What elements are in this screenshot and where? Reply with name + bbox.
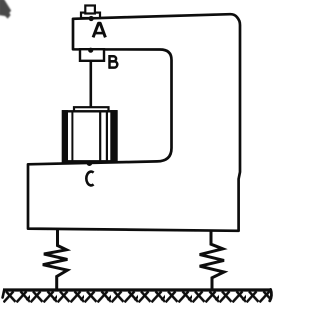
spring left	[43, 230, 68, 291]
cylinder right shade band	[110, 110, 117, 162]
label B	[109, 55, 118, 69]
cylinder inner line 2	[99, 111, 101, 161]
spring right	[200, 230, 224, 291]
stem rod	[90, 61, 93, 108]
bolt flange	[81, 13, 100, 18]
bolt head	[85, 6, 95, 14]
machine frame outline	[28, 14, 240, 231]
cylinder cap plate	[74, 107, 109, 111]
node C dot	[87, 160, 93, 166]
cylinder inner line 1	[71, 111, 73, 161]
fitting below arm	[80, 49, 104, 61]
node A dot	[89, 16, 94, 21]
label C	[86, 172, 93, 186]
label A	[93, 23, 105, 37]
cylinder body	[63, 111, 117, 161]
ground line	[3, 288, 271, 291]
cylinder inner line 3	[106, 111, 108, 161]
cylinder left shade band	[62, 110, 68, 162]
ground right hook	[270, 290, 272, 301]
ground left tick	[3, 290, 5, 298]
node B dot	[88, 48, 93, 53]
